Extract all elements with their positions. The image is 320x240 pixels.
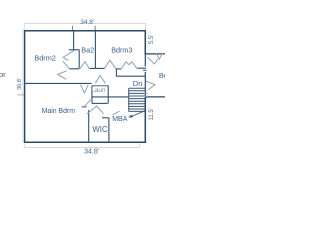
wall left: [24, 30, 26, 143]
svg-text:Bdrm2: Bdrm2: [34, 54, 56, 63]
svg-text:34.8': 34.8': [80, 19, 94, 26]
wall right middle upper: [144, 54, 146, 67]
wall Ba2 bottom stubs: [70, 67, 96, 69]
wall y97 to right edge: [145, 96, 165, 98]
laundry box top wall: [92, 85, 108, 87]
svg-text:Bdrm3: Bdrm3: [111, 45, 132, 54]
wall Bdrm2/Ba2 upper: [73, 30, 75, 50]
wall hall y97: [108, 96, 128, 98]
wall right middle lower: [144, 72, 146, 97]
wall WIC left: [88, 110, 90, 142]
svg-text:5.5': 5.5': [148, 35, 155, 45]
svg-text:Dn: Dn: [133, 79, 143, 88]
wall WIC/MBA: [108, 118, 110, 142]
door chevron Bdrm3 left: [105, 60, 117, 69]
svg-text:30.8': 30.8': [17, 78, 23, 90]
door chevron Bdrm3 right: [121, 62, 138, 70]
outer walls: [24, 30, 146, 143]
svg-text:Bd: Bd: [159, 71, 165, 80]
stair direction arrow: [130, 111, 144, 117]
laundry box right wall: [107, 86, 109, 97]
wall Bdrm2 bottom / Main Bdrm top: [24, 82, 92, 84]
door chevron top right small: [156, 53, 162, 60]
left dimension line: [22, 30, 24, 142]
bottom dimension line: [24, 144, 140, 148]
stair treads: [129, 91, 145, 109]
svg-text:WIC: WIC: [92, 125, 108, 134]
door chevron vestibule: [87, 106, 104, 114]
door chevron laundry: [95, 76, 105, 84]
door chevron right hall upper: [148, 57, 158, 64]
door leaf Main Bdrm: [85, 99, 91, 106]
wall y76.2 hall/stairs top: [116, 75, 145, 77]
wall x116.5 connector: [115, 69, 117, 77]
door jamb tick right: [143, 69, 147, 71]
wall Ba2/Bdrm3: [94, 30, 96, 69]
svg-text:34.8': 34.8': [84, 149, 99, 156]
wall stub y106.9: [82, 106, 87, 108]
door chevron Main Bdrm wall: [81, 85, 89, 93]
wall MBA stub y117.8: [102, 117, 109, 119]
door chevron right hall lower: [146, 81, 155, 90]
top dimension subdivision ticks: [72, 26, 95, 31]
svg-text:Laun: Laun: [91, 87, 106, 94]
door chevron Ba2: [80, 62, 89, 69]
wall y54 to right edge: [145, 53, 165, 55]
laundry box left wall: [91, 86, 93, 97]
wall y103.4: [92, 102, 108, 104]
door leaf MBA: [113, 111, 120, 115]
svg-text:Main Bdrm: Main Bdrm: [42, 108, 76, 115]
wall jog y49.8: [69, 49, 80, 51]
door chevrons Bdrm2: [58, 50, 75, 79]
wall x92 below laundry: [91, 97, 93, 103]
top dimension line: [24, 24, 146, 30]
svg-text:or: or: [0, 70, 6, 79]
wall Bdrm2/Ba2 lower: [78, 50, 80, 69]
left dimension tick: [18, 94, 24, 96]
jamb ticks right of wall: [144, 94, 148, 97]
staircase box: [129, 88, 145, 111]
wall x108 below laundry: [107, 97, 109, 104]
wall Bdrm3 bottom stubs: [95, 67, 146, 70]
wall bottom: [24, 141, 146, 143]
svg-text:11.5': 11.5': [149, 108, 155, 120]
stair arrow head: [128, 115, 133, 118]
wall right lower: [144, 97, 146, 142]
wall right upper: [144, 30, 146, 54]
wall top: [24, 30, 146, 32]
svg-text:MBA: MBA: [112, 116, 128, 123]
svg-text:Ba2: Ba2: [81, 45, 94, 54]
laundry box bottom wall: [91, 96, 108, 98]
interior walls: [24, 30, 146, 142]
